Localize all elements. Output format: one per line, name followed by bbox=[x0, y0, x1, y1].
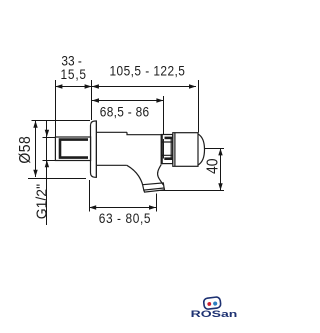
bonnet left edge thick bbox=[161, 135, 163, 165]
extension line thread bottom bbox=[43, 160, 56, 162]
wall flange bbox=[91, 121, 97, 177]
push button dome bbox=[198, 134, 205, 165]
bonnet inner verticals bbox=[163, 139, 171, 159]
arrow dia58 bottom bbox=[33, 170, 37, 177]
arrow dia58 top bbox=[33, 121, 37, 128]
dim line G1/2 thread bbox=[46, 121, 48, 225]
logo icon rounded square bbox=[203, 297, 221, 310]
arrow G12 top (points down) bbox=[45, 130, 49, 137]
push button body bbox=[173, 133, 198, 167]
arrow dim1 mid-left bbox=[92, 84, 99, 88]
spout right profile bbox=[158, 165, 164, 185]
extension line wall plane bottom bbox=[89, 180, 91, 212]
push button face seam bbox=[174, 133, 176, 167]
flange right edge bbox=[95, 121, 97, 177]
arrow dim1 mid-right bbox=[85, 84, 92, 88]
svg-text:15,5: 15,5 bbox=[61, 66, 87, 82]
arrow 40 top bbox=[218, 148, 222, 155]
thread inner thick rectangle bbox=[60, 140, 88, 158]
spout outlet rim bbox=[144, 188, 165, 192]
body large section bbox=[96, 132, 127, 165]
dim line 40 bbox=[220, 148, 222, 190]
spout left profile bbox=[127, 165, 143, 184]
arrow dim2 left bbox=[92, 98, 99, 102]
svg-text:68,5 - 86: 68,5 - 86 bbox=[100, 104, 150, 120]
dim line 33-15,5 / 105,5-122,5 bbox=[55, 86, 196, 88]
extension line bonnet bbox=[163, 96, 165, 134]
svg-text:ROSan: ROSan bbox=[191, 308, 238, 319]
svg-text:Ø58: Ø58 bbox=[16, 136, 34, 164]
extension line spout outlet vertical bbox=[156, 194, 158, 212]
spout aerator cap bbox=[143, 183, 165, 190]
arrow 40 bottom bbox=[218, 183, 222, 190]
logo icon red dot bbox=[207, 302, 211, 306]
arrow dim bottom left bbox=[89, 205, 96, 209]
svg-text:G1/2": G1/2" bbox=[34, 184, 50, 219]
bonnet ring top knurl bbox=[165, 137, 173, 140]
extension line thread end bbox=[55, 80, 57, 137]
body step bbox=[127, 132, 161, 134]
extension line wall plane top bbox=[91, 80, 93, 120]
dim line 63-80,5 bbox=[89, 207, 156, 209]
extension line spout outlet level bbox=[160, 190, 225, 192]
logo icon blue dot bbox=[213, 301, 218, 306]
svg-text:105,5 - 122,5: 105,5 - 122,5 bbox=[109, 63, 185, 79]
bonnet ridge lines bbox=[161, 142, 172, 155]
arrow dim2 right bbox=[156, 98, 163, 102]
extension line knob face bbox=[198, 80, 200, 133]
svg-text:40: 40 bbox=[204, 158, 222, 174]
extension line flange top bbox=[32, 120, 91, 122]
thread outer thin rectangle bbox=[55, 137, 90, 161]
arrow dim bottom right bbox=[149, 205, 156, 209]
leader knob dome bbox=[205, 148, 225, 150]
Rosan logo bbox=[191, 297, 238, 320]
dim line 68,5-86 bbox=[92, 100, 164, 102]
dim line Ø58 bbox=[35, 121, 37, 177]
svg-text:63 - 80,5: 63 - 80,5 bbox=[99, 210, 151, 226]
extension line thread top bbox=[43, 137, 56, 139]
arrow G12 bottom (points up) bbox=[45, 160, 49, 167]
arrow dim1 right bbox=[189, 84, 196, 88]
bonnet ring bottom knurl bbox=[164, 157, 172, 160]
bonnet outline bbox=[161, 135, 172, 164]
arrow dim1 left bbox=[55, 84, 62, 88]
extension line flange bottom bbox=[28, 178, 86, 180]
